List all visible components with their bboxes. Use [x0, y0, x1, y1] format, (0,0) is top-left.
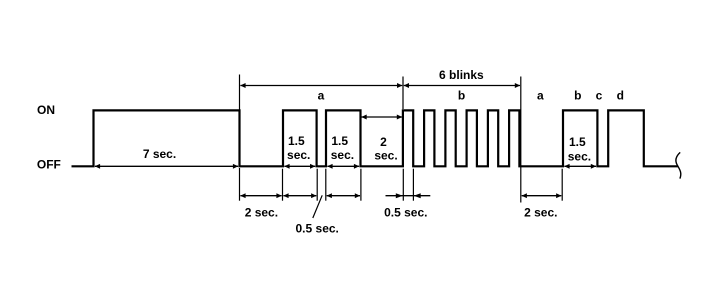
label 7 sec. — [143, 147, 176, 161]
svg-text:6 blinks: 6 blinks — [439, 68, 484, 82]
extension line at first falling edge — [239, 75, 241, 201]
svg-text:2 sec.: 2 sec. — [245, 205, 278, 219]
svg-text:2: 2 — [380, 135, 387, 149]
svg-text:c: c — [596, 88, 603, 102]
svg-text:b: b — [458, 88, 465, 102]
wire break squiggle — [676, 152, 681, 178]
label d (right section) — [617, 88, 624, 102]
dimension 1.5 sec arrow pulse b — [564, 165, 596, 167]
label a — [318, 88, 325, 102]
svg-text:sec.: sec. — [331, 148, 354, 162]
label 1.5 sec. pulse b — [568, 135, 591, 163]
svg-text:OFF: OFF — [37, 157, 61, 171]
dimension 1.5 sec arrow pulse 3 — [327, 165, 359, 167]
label b — [458, 88, 465, 102]
svg-text:2 sec.: 2 sec. — [524, 205, 557, 219]
extension lines below pulses 2 and 3 — [283, 169, 361, 201]
label 0.5 sec. bottom right — [384, 205, 427, 219]
dimension 1.5 sec arrow pulse 2 — [284, 165, 315, 167]
label 0.5 sec. bottom left — [296, 222, 339, 236]
svg-text:7 sec.: 7 sec. — [143, 147, 176, 161]
extension line at blink start (top) — [402, 77, 404, 110]
label c (right section) — [596, 88, 603, 102]
svg-text:d: d — [617, 88, 624, 102]
label 1.5 sec. pulse 2 — [287, 134, 310, 162]
extension lines below first blink pulse — [403, 169, 413, 201]
svg-text:a: a — [318, 88, 325, 102]
wire waveform trace — [72, 110, 679, 166]
svg-text:sec.: sec. — [568, 149, 591, 163]
dimension 2 sec arrow (bottom right) — [522, 195, 562, 197]
svg-text:sec.: sec. — [287, 148, 310, 162]
dimension 0.5 sec arrows (outside pointing) — [386, 193, 431, 198]
dimension arrow under pulse 2 — [283, 195, 316, 197]
dimension 2 sec arrow (bottom left) — [240, 195, 281, 197]
svg-text:0.5 sec.: 0.5 sec. — [384, 205, 427, 219]
label 2 sec. bottom right — [524, 205, 557, 219]
dimension 2 sec gap arrow (top) — [362, 116, 403, 118]
label 2 sec. gap — [374, 135, 397, 163]
extension line below pulse b rise — [561, 169, 563, 201]
dimension b (6 blinks) arrow — [404, 85, 520, 87]
label 6 blinks — [439, 68, 484, 82]
svg-text:a: a — [537, 88, 544, 102]
svg-text:b: b — [574, 88, 581, 102]
node OFF label — [37, 157, 61, 171]
svg-text:0.5 sec.: 0.5 sec. — [296, 222, 339, 236]
label 2 sec. bottom left — [245, 205, 278, 219]
dimension arrow under pulse 3 — [327, 195, 360, 197]
svg-text:sec.: sec. — [374, 149, 397, 163]
dimension 7 sec. arrow — [95, 165, 238, 167]
svg-text:1.5: 1.5 — [331, 134, 348, 148]
svg-text:1.5: 1.5 — [288, 134, 305, 148]
svg-text:ON: ON — [37, 103, 55, 117]
extension line at blink end (long) — [520, 77, 522, 203]
leader line 0.5 sec. — [313, 195, 322, 218]
node ON label — [37, 103, 55, 117]
svg-text:1.5: 1.5 — [569, 135, 586, 149]
label b (right section) — [574, 88, 581, 102]
label a (right section) — [537, 88, 544, 102]
dimension a arrow — [240, 85, 402, 87]
label 1.5 sec. pulse 3 — [331, 134, 354, 162]
